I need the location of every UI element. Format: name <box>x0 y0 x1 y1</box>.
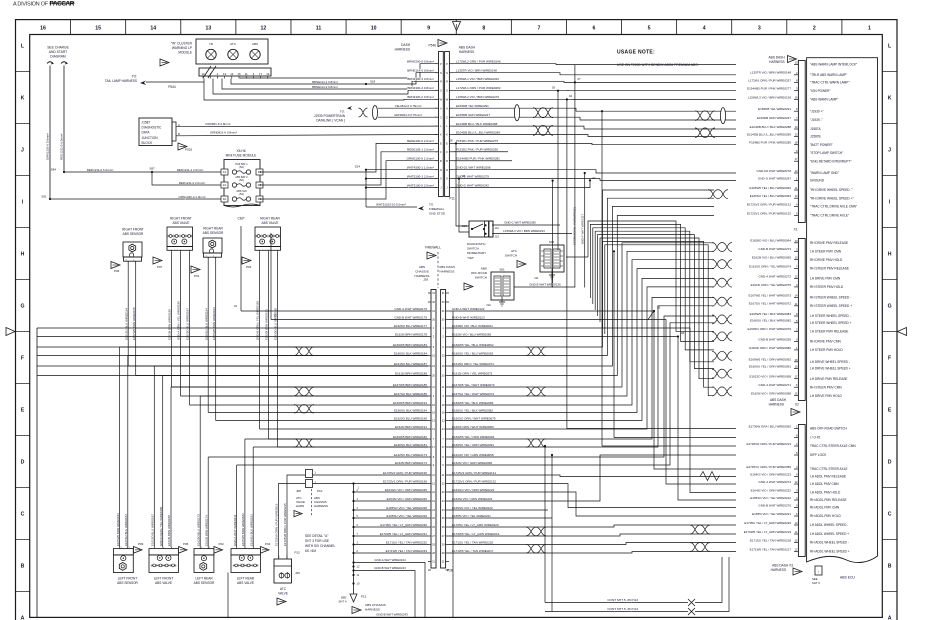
svg-text:P153D1 PNK / PUR WIRE0275: P153D1 PNK / PUR WIRE0275 <box>456 139 498 143</box>
svg-text:E104DB BLU / BLK WIRE0288: E104DB BLU / BLK WIRE0288 <box>456 122 498 126</box>
svg-text:GND-A WHT WIRE0122: GND-A WHT WIRE0122 <box>452 307 485 311</box>
svg-text:HARNESS: HARNESS <box>314 504 328 508</box>
svg-text:P10: P10 <box>317 489 323 493</box>
svg-text:ABS VALVE: ABS VALVE <box>261 221 278 225</box>
svg-text:GND-G WHT WIRE0279: GND-G WHT WIRE0279 <box>456 174 489 178</box>
svg-text:USAGE NOTE:: USAGE NOTE: <box>617 50 655 56</box>
svg-text:GRN0812-0 0.75mm²: GRN0812-0 0.75mm² <box>394 113 422 117</box>
svg-text:E160SO ORN / WHT WIRE0079: E160SO ORN / WHT WIRE0079 <box>452 416 496 420</box>
svg-text:S: S <box>446 88 448 92</box>
svg-text:WHT5100-1 2.0mm²: WHT5100-1 2.0mm² <box>407 174 434 178</box>
svg-text:E: E <box>21 407 25 413</box>
svg-text:E1626I VIO / GRN WIRE0098: E1626I VIO / GRN WIRE0098 <box>751 392 791 396</box>
svg-text:GND-A WHT WIRE0271: GND-A WHT WIRE0271 <box>759 383 792 387</box>
svg-text:P546: P546 <box>429 44 437 48</box>
svg-text:5: 5 <box>648 26 651 32</box>
svg-text:J: J <box>888 147 891 153</box>
svg-text:LH STEER PMV CMN: LH STEER PMV CMN <box>810 249 842 253</box>
svg-text:ABS DASH: ABS DASH <box>439 265 455 269</box>
svg-text:C: C <box>446 115 448 119</box>
svg-text:GND-A WHT WIRE0176: GND-A WHT WIRE0176 <box>395 307 428 311</box>
svg-text:G: G <box>888 303 892 309</box>
svg-text:ORN1226-6 0.8mm²: ORN1226-6 0.8mm² <box>46 133 50 160</box>
svg-text:LH DRIVE WHEEL SPEED -: LH DRIVE WHEEL SPEED - <box>810 360 850 364</box>
svg-text:(5A): (5A) <box>239 166 244 169</box>
svg-text:E1705U YEL / LT_GRN WIRE0220: E1705U YEL / LT_GRN WIRE0220 <box>744 521 791 525</box>
svg-text:HAZ BAT 1: HAZ BAT 1 <box>235 163 248 166</box>
svg-text:06: 06 <box>681 331 685 335</box>
svg-text:E166SU BLK WIRE0194: E166SU BLK WIRE0194 <box>204 308 208 340</box>
svg-text:G: G <box>20 303 24 309</box>
svg-text:E1628O VIO / BLU WIRE0064: E1628O VIO / BLU WIRE0064 <box>452 324 493 328</box>
svg-text:E1736W GRA / BLU WIRE0065: E1736W GRA / BLU WIRE0065 <box>749 424 792 428</box>
svg-text:03: 03 <box>552 85 556 89</box>
svg-text:E1626I VIO / GRN WIRE0098: E1626I VIO / GRN WIRE0098 <box>452 461 492 465</box>
svg-text:E104DB BLU / BLK WIRE0288: E104DB BLU / BLK WIRE0288 <box>750 125 792 129</box>
svg-text:S24: S24 <box>355 165 361 169</box>
svg-text:(5A): (5A) <box>239 193 244 196</box>
svg-text:E164GO VIO / ORN WIRE0225: E164GO VIO / ORN WIRE0225 <box>385 488 428 492</box>
svg-text:E1615O BLU WIRE0187: E1615O BLU WIRE0187 <box>151 514 155 546</box>
svg-text:RH DRIVE PMV CMN: RH DRIVE PMV CMN <box>810 340 841 344</box>
svg-text:E164SI VIO / ORN WIRE0222: E164SI VIO / ORN WIRE0222 <box>751 488 792 492</box>
svg-text:J: J <box>21 147 24 153</box>
svg-text:E1705U YEL / LT_GRN WIRE0230: E1705U YEL / LT_GRN WIRE0230 <box>380 523 427 527</box>
svg-text:TO:: TO: <box>132 75 137 79</box>
svg-text:E165SU VIO / YEL WIRE0229: E165SU VIO / YEL WIRE0229 <box>386 514 427 518</box>
svg-text:GND-A WHT WIRE0272: GND-A WHT WIRE0272 <box>759 274 792 278</box>
svg-text:ABS: ABS <box>419 265 425 269</box>
svg-text:I / O #2: I / O #2 <box>810 436 821 440</box>
svg-text:LH DRIVE PMV RELEASE: LH DRIVE PMV RELEASE <box>810 377 848 381</box>
svg-text:ABS SENSOR: ABS SENSOR <box>117 581 138 585</box>
svg-text:"STOP LAMP SWITCH": "STOP LAMP SWITCH" <box>810 151 843 155</box>
svg-text:E167W5 BRN WIRE0165: E167W5 BRN WIRE0165 <box>132 307 136 340</box>
svg-text:09: 09 <box>462 174 466 178</box>
svg-text:15: 15 <box>237 72 241 76</box>
svg-text:X2: X2 <box>795 403 799 407</box>
svg-text:DIAGRAM: DIAGRAM <box>50 55 66 59</box>
svg-text:ABS DASH: ABS DASH <box>459 46 476 50</box>
svg-text:S87: S87 <box>149 167 155 171</box>
svg-text:RH STEER WHEEL SPEED -: RH STEER WHEEL SPEED - <box>810 296 851 300</box>
svg-text:WHT5100-0 2.0mm²: WHT5100-0 2.0mm² <box>407 183 434 187</box>
svg-text:BRNE114-0 0.8mm²: BRNE114-0 0.8mm² <box>407 69 434 73</box>
svg-text:E1615I BRN WIRE0188: E1615I BRN WIRE0188 <box>167 515 171 546</box>
svg-text:E1620O BLU WIRE0190: E1620O BLU WIRE0190 <box>274 308 278 340</box>
svg-text:VALVE: VALVE <box>278 591 288 595</box>
svg-text:S18: S18 <box>370 80 376 84</box>
svg-text:J1587B: J1587B <box>810 135 821 139</box>
svg-text:ABS: ABS <box>252 42 258 46</box>
svg-text:E166SU BLK WIRE0184: E166SU BLK WIRE0184 <box>124 514 128 546</box>
svg-text:E1625O BLU WIRE0173: E1625O BLU WIRE0173 <box>196 514 200 546</box>
svg-text:E1725V1 ORN / PUR WIRE0132: E1725V1 ORN / PUR WIRE0132 <box>747 211 791 215</box>
svg-text:E104DB BLU /L_BLU WIRE0289: E104DB BLU /L_BLU WIRE0289 <box>747 132 791 136</box>
svg-text:D: D <box>440 168 442 172</box>
svg-text:GND-G WHT WIRE0267: GND-G WHT WIRE0267 <box>758 176 791 180</box>
svg-text:LH DRIVE PMV HOLD: LH DRIVE PMV HOLD <box>810 394 842 398</box>
svg-text:RED1211-1 2.0mm²: RED1211-1 2.0mm² <box>177 168 203 172</box>
svg-text:ABS CHASSIS: ABS CHASSIS <box>365 603 386 607</box>
svg-text:K: K <box>440 133 442 137</box>
svg-text:GND-A GRN / YEL WIRE0189: GND-A GRN / YEL WIRE0189 <box>177 301 181 340</box>
svg-text:3A: 3A <box>223 197 227 201</box>
svg-text:E1615I ORN / YEL WIRE0075: E1615I ORN / YEL WIRE0075 <box>452 371 493 375</box>
svg-text:BRN4300-3 0.8mm²: BRN4300-3 0.8mm² <box>407 77 434 81</box>
svg-text:BRNE114-2 0.8mm²: BRNE114-2 0.8mm² <box>312 85 338 89</box>
svg-text:N: N <box>446 71 448 75</box>
svg-text:P12: P12 <box>295 551 301 555</box>
svg-text:RH STEER PMV CMN: RH STEER PMV CMN <box>810 385 842 389</box>
svg-text:CONT SHT 5, ZN H13: CONT SHT 5, ZN H13 <box>607 598 638 602</box>
svg-text:DIFF LOCK: DIFF LOCK <box>810 453 827 457</box>
svg-text:HARNESS: HARNESS <box>415 274 430 278</box>
svg-text:L156WL4 VIO / BRN WIRE0234: L156WL4 VIO / BRN WIRE0234 <box>503 229 545 233</box>
svg-text:L172WL2 GRN / PUR WIRE0146: L172WL2 GRN / PUR WIRE0146 <box>456 60 501 64</box>
svg-text:R: R <box>446 79 448 83</box>
svg-text:E1625O BLU WIRE0173: E1625O BLU WIRE0173 <box>394 453 427 457</box>
svg-text:2A: 2A <box>223 183 227 187</box>
svg-text:E1655I VIO / YEL WIRE0221: E1655I VIO / YEL WIRE0221 <box>452 514 491 518</box>
svg-text:A: A <box>888 615 892 620</box>
svg-text:N: N <box>440 71 442 75</box>
svg-text:SWITCH: SWITCH <box>475 276 487 280</box>
svg-text:GND STUD: GND STUD <box>429 212 446 216</box>
svg-text:ABS VALVE: ABS VALVE <box>172 221 189 225</box>
svg-text:LH STEER PMV HOLD: LH STEER PMV HOLD <box>810 348 843 352</box>
svg-text:CONT SHT 5, ZN H13: CONT SHT 5, ZN H13 <box>607 607 638 611</box>
svg-text:J1939 POWERTRAIN: J1939 POWERTRAIN <box>314 114 346 118</box>
svg-text:RH STEER PMV RELEASE: RH STEER PMV RELEASE <box>810 267 849 271</box>
svg-text:19: 19 <box>266 72 270 76</box>
svg-text:E166SU YEL / BLK WIRE0082: E166SU YEL / BLK WIRE0082 <box>750 319 791 323</box>
svg-text:BRN4300-4 0.8mm²: BRN4300-4 0.8mm² <box>407 86 434 90</box>
svg-text:JUNCTION: JUNCTION <box>142 136 159 140</box>
svg-text:P01: P01 <box>194 274 200 278</box>
svg-text:DATALINK ( VCAN ): DATALINK ( VCAN ) <box>316 119 345 123</box>
svg-text:E166W5 YEL / BLK WIRE0083: E166W5 YEL / BLK WIRE0083 <box>452 401 494 405</box>
svg-text:E1725V1 ORN / PUR WIRE0196: E1725V1 ORN / PUR WIRE0196 <box>383 479 427 483</box>
svg-text:L135TR VIO / BRN WIRE0148: L135TR VIO / BRN WIRE0148 <box>750 71 791 75</box>
svg-text:13: 13 <box>223 72 227 76</box>
svg-text:ABS DASH X3: ABS DASH X3 <box>772 564 793 568</box>
svg-text:E167W5 BRN WIRE0185: E167W5 BRN WIRE0185 <box>393 383 427 387</box>
svg-text:3: 3 <box>758 26 761 32</box>
svg-text:E164GI VIO / ORN WIRE0223: E164GI VIO / ORN WIRE0223 <box>750 472 791 476</box>
svg-text:2: 2 <box>813 26 816 32</box>
svg-text:E1615O BLU WIRE0187: E1615O BLU WIRE0187 <box>186 308 190 340</box>
svg-text:E: E <box>888 407 892 413</box>
svg-text:CEP: CEP <box>238 217 246 221</box>
svg-text:J08: J08 <box>296 489 301 493</box>
svg-text:08: 08 <box>449 139 453 143</box>
svg-text:GND-B WHT WIRE0243: GND-B WHT WIRE0243 <box>374 566 406 570</box>
svg-text:P544: P544 <box>168 85 176 89</box>
svg-text:E1623O VIO / GRN WIRE0058: E1623O VIO / GRN WIRE0058 <box>749 375 791 379</box>
svg-text:A: A <box>440 106 442 110</box>
svg-text:LH ADDL PMV HOLD: LH ADDL PMV HOLD <box>810 491 841 495</box>
svg-text:X1: X1 <box>794 228 798 232</box>
svg-text:P04: P04 <box>265 542 271 546</box>
svg-text:GND-F WHT WIRE0117: GND-F WHT WIRE0117 <box>580 214 584 244</box>
svg-text:HARNESS: HARNESS <box>771 568 786 572</box>
svg-text:E1619I BRN WIRE0188: E1619I BRN WIRE0188 <box>168 309 172 340</box>
svg-text:C: C <box>888 511 892 517</box>
svg-text:LH DRIVE WHEEL SPEED +: LH DRIVE WHEEL SPEED + <box>810 367 851 371</box>
svg-text:E166SU YEL / ORN WIRE0091: E166SU YEL / ORN WIRE0091 <box>749 365 791 369</box>
svg-text:HARNESS: HARNESS <box>769 403 784 407</box>
svg-text:E1615O ORN / YEL WIRE0074: E1615O ORN / YEL WIRE0074 <box>749 265 791 269</box>
svg-text:E1623O VIO / GRN WIRE0058: E1623O VIO / GRN WIRE0058 <box>452 453 494 457</box>
svg-text:GROUND: GROUND <box>810 179 825 183</box>
svg-text:02: 02 <box>593 176 597 180</box>
svg-text:E166SU YEL / ORN WIRE0091: E166SU YEL / ORN WIRE0091 <box>452 443 494 447</box>
svg-text:E165DB GRN WIRE0247: E165DB GRN WIRE0247 <box>757 116 791 120</box>
svg-text:J12: J12 <box>495 226 500 230</box>
svg-text:FIREWALL: FIREWALL <box>425 246 441 250</box>
svg-text:GRN0821-6 0.8mm²: GRN0821-6 0.8mm² <box>210 130 237 134</box>
svg-text:SEE DETAIL "A": SEE DETAIL "A" <box>305 534 328 538</box>
svg-text:TO:: TO: <box>340 110 345 114</box>
svg-text:HARNESS: HARNESS <box>459 50 474 54</box>
svg-text:E166W5 BRN WIRE0182: E166W5 BRN WIRE0182 <box>393 435 427 439</box>
svg-text:E165DB YEL WIRE0291: E165DB YEL WIRE0291 <box>456 104 489 108</box>
svg-text:P07: P07 <box>157 265 163 269</box>
svg-text:1: 1 <box>868 26 871 32</box>
svg-text:"BATT POWER": "BATT POWER" <box>810 143 833 147</box>
svg-text:L172WL1 ORN / PUR WIRE0282: L172WL1 ORN / PUR WIRE0282 <box>456 86 501 90</box>
svg-text:F: F <box>888 355 891 361</box>
svg-text:HARNESS: HARNESS <box>395 48 410 52</box>
svg-text:"OM": "OM" <box>467 256 474 260</box>
svg-text:MODULE: MODULE <box>178 51 192 55</box>
svg-text:P153D2 PNK / PUR WIRE0290: P153D2 PNK / PUR WIRE0290 <box>456 148 498 152</box>
svg-text:E166SU BLK WIRE0181: E166SU BLK WIRE0181 <box>249 514 253 546</box>
svg-text:(5A): (5A) <box>239 179 244 182</box>
svg-text:H: H <box>21 251 25 257</box>
svg-text:ABS SENSOR: ABS SENSOR <box>194 581 215 585</box>
svg-text:E171W5 YEL / TAN WIRE0217: E171W5 YEL / TAN WIRE0217 <box>750 547 792 551</box>
svg-text:12: 12 <box>261 26 267 32</box>
svg-text:E1725VC ORN / PUR WIRE0059: E1725VC ORN / PUR WIRE0059 <box>746 465 791 469</box>
svg-text:TO: TO <box>429 203 434 207</box>
svg-text:E1705U YEL / LT_GRN WIRE0220: E1705U YEL / LT_GRN WIRE0220 <box>452 523 499 527</box>
svg-text:"TRAC CTRL WARN LAMP": "TRAC CTRL WARN LAMP" <box>810 81 850 85</box>
svg-text:GND-B WHT WIRE0243: GND-B WHT WIRE0243 <box>376 612 408 616</box>
svg-text:E164GO VIO / ORN WIRE0224: E164GO VIO / ORN WIRE0224 <box>452 488 495 492</box>
svg-text:1A: 1A <box>223 170 227 174</box>
svg-text:E1626I VIO / BLU WIRE0065: E1626I VIO / BLU WIRE0065 <box>752 256 792 260</box>
svg-text:GND-B WHT WIRE0123: GND-B WHT WIRE0123 <box>452 315 485 319</box>
svg-text:BRNE114-1 0.8mm²: BRNE114-1 0.8mm² <box>312 80 338 84</box>
svg-text:E166W5 YEL / BLU WIRE0062: E166W5 YEL / BLU WIRE0062 <box>749 186 791 190</box>
svg-text:J13: J13 <box>486 303 491 307</box>
svg-text:"W" CLUSTER: "W" CLUSTER <box>171 42 193 46</box>
svg-text:A: A <box>21 615 25 620</box>
svg-text:GND-D1 WHT WIRE0298: GND-D1 WHT WIRE0298 <box>456 166 491 170</box>
svg-text:B: B <box>446 159 448 163</box>
svg-text:RH STEER WHEEL SPEED +: RH STEER WHEEL SPEED + <box>810 304 852 308</box>
svg-text:E1725/WORN+ PUR/WIRE(E): E1725/WORN+ PUR/WIRE(E) <box>573 207 577 245</box>
svg-text:E166SU BLK WIRE0194: E166SU BLK WIRE0194 <box>394 408 427 412</box>
svg-text:"TRAC CTRL DRIVE AXLE CMN": "TRAC CTRL DRIVE AXLE CMN" <box>810 205 857 209</box>
svg-text:"ABS WARN LAMP": "ABS WARN LAMP" <box>810 98 838 102</box>
svg-text:D: D <box>888 459 892 465</box>
svg-text:E167SU BLK WIRE0186: E167SU BLK WIRE0186 <box>394 392 427 396</box>
svg-text:REDE100-0 2.0mm²: REDE100-0 2.0mm² <box>407 139 434 143</box>
svg-text:E166W5 BRN WIRE0183: E166W5 BRN WIRE0183 <box>393 343 427 347</box>
svg-text:ABS: ABS <box>481 267 487 271</box>
svg-text:VIO0821-6 0.8mm²: VIO0821-6 0.8mm² <box>205 122 231 126</box>
svg-text:HARN: HARN <box>296 504 304 508</box>
svg-text:GND-A WHT WIRE0244: GND-A WHT WIRE0244 <box>374 558 406 562</box>
svg-text:ATC: ATC <box>511 249 518 253</box>
svg-text:LH ADDL WHEEL SPEED +: LH ADDL WHEEL SPEED + <box>810 532 849 536</box>
svg-text:P: P <box>440 62 442 66</box>
svg-text:P553: P553 <box>185 148 193 152</box>
svg-text:WARNING LP: WARNING LP <box>172 46 192 50</box>
svg-text:J1587: J1587 <box>142 120 151 124</box>
svg-text:RH ADDL PMV CMN: RH ADDL PMV CMN <box>810 506 840 510</box>
svg-text:E1620I BRN WIRE0191: E1620I BRN WIRE0191 <box>395 425 427 429</box>
svg-text:CHASSIS: CHASSIS <box>415 270 429 274</box>
svg-text:RH ADDL WHEEL SPEED +: RH ADDL WHEEL SPEED + <box>810 550 850 554</box>
svg-text:E171SU YEL / TAN WIRE0218: E171SU YEL / TAN WIRE0218 <box>750 538 791 542</box>
svg-text:"J1939 +": "J1939 +" <box>810 109 824 113</box>
svg-text:E1620I BRN WIRE0191: E1620I BRN WIRE0191 <box>265 309 269 340</box>
svg-text:HARNESS: HARNESS <box>365 607 380 611</box>
svg-text:E154AB5 PUR / PNK WIRE0281: E154AB5 PUR / PNK WIRE0281 <box>456 157 500 161</box>
svg-text:DASH: DASH <box>401 43 411 47</box>
svg-text:SWITCH: SWITCH <box>505 254 517 258</box>
svg-text:GND-D2 WHT WIRE0278: GND-D2 WHT WIRE0278 <box>757 169 792 173</box>
svg-text:E1625I BRN WIRE0174: E1625I BRN WIRE0174 <box>204 515 208 546</box>
svg-text:ABS SENSOR: ABS SENSOR <box>123 232 144 236</box>
svg-text:K: K <box>888 95 892 101</box>
svg-text:MOMENTARY: MOMENTARY <box>467 251 486 255</box>
svg-text:6S / 6M: 6S / 6M <box>305 549 316 553</box>
svg-text:LH ADDL PMV RELEASE: LH ADDL PMV RELEASE <box>810 475 846 479</box>
svg-text:B: B <box>440 159 442 163</box>
svg-text:E166W5 BRN WIRE0182: E166W5 BRN WIRE0182 <box>241 513 245 546</box>
svg-text:GND-D GRN / YEL WIRE0189: GND-D GRN / YEL WIRE0189 <box>159 506 163 546</box>
svg-text:E171W5 YEL / TAN WIRE0217: E171W5 YEL / TAN WIRE0217 <box>452 549 494 553</box>
svg-text:E1725VA ORN / PUR WIRE0216: E1725VA ORN / PUR WIRE0216 <box>275 503 279 546</box>
svg-text:E166W5 YEL / BLU WIRE0062: E166W5 YEL / BLU WIRE0062 <box>452 343 494 347</box>
svg-text:P09: P09 <box>138 542 144 546</box>
svg-text:17: 17 <box>259 72 263 76</box>
svg-text:E166W5 BRN WIRE0193: E166W5 BRN WIRE0193 <box>393 401 427 405</box>
svg-text:E1603I ORN / WHT WIRE0080: E1603I ORN / WHT WIRE0080 <box>749 346 791 350</box>
svg-text:GND-A WHT WIRE0274: GND-A WHT WIRE0274 <box>759 480 792 484</box>
svg-text:E170W5 YEL / LT_GRN WIRE0219: E170W5 YEL / LT_GRN WIRE0219 <box>744 530 792 534</box>
svg-text:BRN4300-2 0.8mm²: BRN4300-2 0.8mm² <box>407 95 434 99</box>
svg-text:34: 34 <box>234 304 238 308</box>
svg-text:9: 9 <box>427 26 430 32</box>
svg-text:A: A <box>446 106 448 110</box>
svg-text:"RH DRIVE WHEEL SPEED -": "RH DRIVE WHEEL SPEED -" <box>810 188 853 192</box>
svg-text:K: K <box>21 95 25 101</box>
svg-text:WITH SIX CHANNEL: WITH SIX CHANNEL <box>305 544 336 548</box>
svg-text:USE ON T2000 WITH BENDIX ABS6: USE ON T2000 WITH BENDIX ABS6 PREMIUM AB… <box>617 63 699 67</box>
svg-text:E171SU YEL / TAN WIRE0232: E171SU YEL / TAN WIRE0232 <box>386 540 427 544</box>
svg-text:11: 11 <box>245 72 248 76</box>
svg-text:GND-C WHT WIRE0280: GND-C WHT WIRE0280 <box>504 221 536 225</box>
svg-text:LH STEER WHEEL SPEED -: LH STEER WHEEL SPEED - <box>810 314 851 318</box>
svg-text:E167SU YEL / WHT WIRE0072: E167SU YEL / WHT WIRE0072 <box>749 302 791 306</box>
svg-text:RH ADDL PMV RELEASE: RH ADDL PMV RELEASE <box>810 498 847 502</box>
svg-text:GND-B WHT WIRE0259: GND-B WHT WIRE0259 <box>758 337 791 341</box>
svg-text:14: 14 <box>150 26 156 32</box>
svg-text:ABS VALVE: ABS VALVE <box>237 581 254 585</box>
svg-text:05: 05 <box>657 306 661 310</box>
svg-text:P05: P05 <box>183 542 189 546</box>
svg-text:YEL0812-0 0.75mm²: YEL0812-0 0.75mm² <box>395 104 422 108</box>
svg-text:E: E <box>440 142 442 146</box>
svg-text:ABS ECU: ABS ECU <box>840 576 855 580</box>
svg-text:E171W5 YEL / TAN WIRE0233: E171W5 YEL / TAN WIRE0233 <box>386 549 428 553</box>
svg-text:E1626I BRN WIRE0178: E1626I BRN WIRE0178 <box>395 332 427 336</box>
svg-text:P03: P03 <box>246 265 252 269</box>
svg-text:TRAC CTRL STEER AXLE: TRAC CTRL STEER AXLE <box>810 467 848 471</box>
svg-text:SHT 3 FOR USE: SHT 3 FOR USE <box>305 539 329 543</box>
svg-text:S01: S01 <box>499 268 505 272</box>
svg-text:L156WL3 VIO / BRN WIRE0136: L156WL3 VIO / BRN WIRE0136 <box>748 95 791 99</box>
svg-text:S02: S02 <box>549 240 555 244</box>
svg-text:8: 8 <box>482 26 485 32</box>
svg-text:E164SI VIO / ORN WIRE0226: E164SI VIO / ORN WIRE0226 <box>387 497 428 501</box>
svg-text:ABS SENSOR: ABS SENSOR <box>203 231 224 235</box>
svg-text:E166W5 BRN WIRE0193: E166W5 BRN WIRE0193 <box>212 307 216 340</box>
svg-text:E165SO VIO / YEL WIRE0222: E165SO VIO / YEL WIRE0222 <box>452 506 493 510</box>
svg-text:"WARN LAMP GND": "WARN LAMP GND" <box>810 171 839 175</box>
svg-text:ORNE100-0 1.0mm²: ORNE100-0 1.0mm² <box>407 156 434 160</box>
svg-text:E1626O BLU WIRE0177: E1626O BLU WIRE0177 <box>394 324 427 328</box>
svg-text:E1615O ORN / YEL WIRE0074: E1615O ORN / YEL WIRE0074 <box>452 362 494 366</box>
svg-text:"IGN POWER": "IGN POWER" <box>810 89 831 93</box>
svg-text:RH ADDL PMV HOLD: RH ADDL PMV HOLD <box>810 514 842 518</box>
svg-text:J25: J25 <box>295 571 300 575</box>
svg-text:L156WL1 VIO / BRN WIRE0262: L156WL1 VIO / BRN WIRE0262 <box>456 77 499 81</box>
svg-text:E1603I ORN / WHT WIRE0080: E1603I ORN / WHT WIRE0080 <box>452 425 494 429</box>
svg-text:E160SO ORN / WHT WIRE0079: E160SO ORN / WHT WIRE0079 <box>748 327 792 331</box>
svg-text:RED1211-2 2.0mm²: RED1211-2 2.0mm² <box>179 181 205 185</box>
svg-text:"J1939 -": "J1939 -" <box>810 118 823 122</box>
svg-text:ORN1226-4 1.0mm²: ORN1226-4 1.0mm² <box>178 195 205 199</box>
svg-text:D: D <box>21 459 25 465</box>
svg-text:HARNESS: HARNESS <box>769 60 784 64</box>
svg-text:G: G <box>440 177 442 181</box>
svg-text:E167SU YEL / WHT WIRE0072: E167SU YEL / WHT WIRE0072 <box>452 392 494 396</box>
svg-text:GND-E WHT WIRE0136: GND-E WHT WIRE0136 <box>529 283 561 287</box>
svg-text:S84: S84 <box>51 168 57 172</box>
svg-text:E161SU BLU WIRE0164: E161SU BLU WIRE0164 <box>124 308 128 340</box>
svg-text:L172WL ORN / PUR WIRE0257: L172WL ORN / PUR WIRE0257 <box>748 78 791 82</box>
svg-text:"RH DRIVE WHEEL SPEED +": "RH DRIVE WHEEL SPEED +" <box>810 196 853 200</box>
svg-text:OFF-ROAD: OFF-ROAD <box>471 271 488 275</box>
svg-text:P06: P06 <box>114 269 120 273</box>
svg-text:ABS DASH: ABS DASH <box>768 56 785 60</box>
svg-text:E166SU YEL / BLU WIRE0063: E166SU YEL / BLU WIRE0063 <box>452 351 494 355</box>
svg-text:"TRAC CTRL DRIVE AXLE": "TRAC CTRL DRIVE AXLE" <box>810 214 849 218</box>
svg-text:C: C <box>440 115 442 119</box>
svg-text:GND-B GRN / YEL WIRE0192: GND-B GRN / YEL WIRE0192 <box>256 301 260 340</box>
svg-text:04: 04 <box>569 94 573 98</box>
svg-text:B: B <box>888 563 892 569</box>
svg-text:J11: J11 <box>534 276 539 280</box>
svg-text:SHT 4: SHT 4 <box>338 600 347 604</box>
